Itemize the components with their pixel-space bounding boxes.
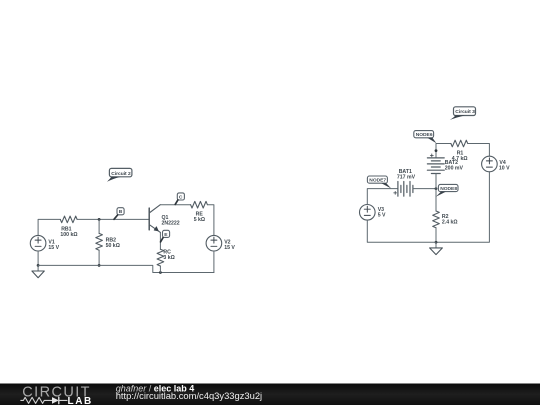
svg-text:NODE8: NODE8 — [440, 186, 457, 192]
logo diode — [52, 397, 67, 404]
junction dot ground node — [37, 264, 40, 267]
node C callout — [175, 193, 184, 205]
svg-text:4.7 kΩ: 4.7 kΩ — [452, 156, 468, 162]
wire V1 bottom stub — [37, 251, 39, 265]
svg-text:LAB: LAB — [68, 396, 93, 405]
wire R2 bottom stub — [435, 228, 437, 243]
resistor RB1 — [60, 216, 77, 223]
wire RB2 top stub — [98, 219, 100, 233]
svg-text:Circuit 2: Circuit 2 — [111, 171, 131, 177]
svg-text:100 kΩ: 100 kΩ — [60, 232, 77, 238]
svg-text:5 kΩ: 5 kΩ — [194, 217, 205, 223]
wire V3 top to BAT1 — [367, 189, 398, 205]
voltage source V4 — [482, 156, 498, 172]
voltage source V2 — [206, 235, 222, 251]
Circuit 2 callout — [107, 168, 132, 181]
svg-text:2N2222: 2N2222 — [162, 220, 180, 226]
wire NODE6 corner and stub to BAT2 — [436, 144, 451, 158]
wire V3 bottom to ground node — [367, 220, 436, 242]
svg-text:3 kΩ: 3 kΩ — [163, 255, 174, 261]
collector wire to RE — [160, 204, 190, 206]
svg-text:C: C — [179, 194, 183, 200]
wire V2 bottom stub — [213, 251, 215, 273]
wire RC bottom stub — [159, 266, 161, 273]
node NODE7 callout — [367, 176, 391, 189]
svg-text:5 V: 5 V — [378, 213, 386, 219]
svg-text:Circuit 3: Circuit 3 — [455, 109, 475, 115]
wire RB2 bottom stub — [98, 250, 100, 265]
wire node8 to R2 — [435, 189, 437, 211]
wire V1 top to RB1 left — [38, 219, 60, 235]
bottom wire left circuit — [38, 265, 214, 272]
svg-text:717 mV: 717 mV — [397, 175, 416, 181]
node B junction dot — [98, 218, 101, 221]
resistor R2 — [433, 211, 440, 228]
svg-text:15 V: 15 V — [48, 245, 59, 251]
svg-text:NODE6: NODE6 — [416, 132, 433, 138]
resistor R1 — [451, 140, 468, 147]
svg-text:2.4 kΩ: 2.4 kΩ — [442, 219, 458, 225]
resistor RE — [191, 201, 208, 208]
resistor RC — [157, 249, 164, 266]
junction dot node8 — [435, 187, 438, 190]
node B callout — [114, 208, 124, 220]
resistor RB2 — [96, 233, 103, 250]
svg-text:50 kΩ: 50 kΩ — [106, 243, 120, 249]
wire R1 right to V4 — [468, 144, 490, 157]
wire BAT1 right to node8 — [413, 188, 436, 190]
svg-text:15 V: 15 V — [224, 245, 235, 251]
junction dot RB2 bottom — [98, 264, 101, 267]
voltage source V1 — [30, 235, 46, 251]
wire RB1 right to Q1 base — [77, 218, 149, 220]
logo resistor zigzag — [21, 397, 52, 403]
svg-text:http://circuitlab.com/c4q3y33g: http://circuitlab.com/c4q3y33gz3u2j — [116, 390, 262, 401]
transistor Q1 — [149, 205, 160, 233]
wire BAT2 bottom stub — [435, 174, 437, 189]
battery BAT1 — [394, 182, 413, 197]
footer bar background — [0, 384, 540, 405]
svg-text:NODE7: NODE7 — [369, 178, 386, 184]
node NODE8 callout — [436, 184, 458, 196]
junction dot RC bottom — [159, 271, 162, 274]
junction dot node6 — [435, 149, 438, 152]
voltage source V3 — [360, 205, 376, 221]
ground (left) — [32, 265, 44, 277]
node E callout — [161, 230, 170, 242]
wire V4 bottom to ground wire — [436, 172, 489, 243]
svg-text:10 V: 10 V — [499, 165, 510, 171]
node NODE6 callout — [414, 131, 437, 144]
ground (right) — [430, 242, 443, 254]
wire RE right to V2 top — [208, 205, 214, 236]
svg-text:200 mV: 200 mV — [445, 166, 464, 172]
battery BAT2 — [427, 154, 444, 174]
svg-text:B: B — [119, 209, 123, 215]
Circuit 3 callout — [450, 107, 476, 120]
junction dot ground node right — [435, 241, 438, 244]
emitter wire to RC — [159, 232, 161, 249]
